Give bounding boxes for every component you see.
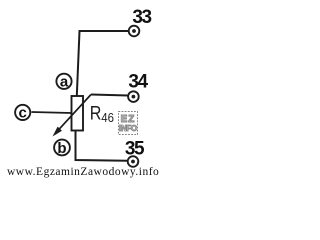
resistor R46 body	[72, 96, 84, 131]
terminal 35 connector	[128, 156, 139, 167]
terminal 33 connector	[129, 26, 140, 37]
watermark www.EgzaminZawodowy.info	[7, 166, 159, 178]
svg-text:b: b	[57, 140, 66, 157]
wire wiper to terminal 34	[91, 95, 128, 96]
node c	[15, 105, 30, 122]
wire terminal 33 to R46 top	[77, 31, 128, 96]
terminal 35 label	[125, 139, 145, 160]
svg-text:www.EgzaminZawodowy.info: www.EgzaminZawodowy.info	[7, 166, 159, 178]
wiper arrow through R46	[53, 95, 92, 137]
wire node c to R46	[32, 112, 72, 113]
svg-text:R: R	[90, 102, 102, 124]
label R46	[90, 102, 114, 125]
terminal 34 connector	[128, 91, 139, 102]
svg-text:46: 46	[101, 110, 114, 125]
node b	[54, 140, 70, 157]
svg-text:INFO: INFO	[119, 124, 137, 133]
svg-text:c: c	[19, 105, 27, 122]
wire R46 bottom to terminal 35	[76, 131, 128, 161]
stamp logo EZ INFO	[119, 112, 138, 135]
svg-text:a: a	[60, 74, 69, 91]
svg-text:35: 35	[125, 139, 145, 160]
svg-text:33: 33	[132, 7, 151, 28]
terminal 33 label	[132, 7, 151, 28]
terminal 34 label	[128, 72, 148, 93]
node a	[56, 74, 71, 91]
svg-text:34: 34	[128, 72, 148, 93]
